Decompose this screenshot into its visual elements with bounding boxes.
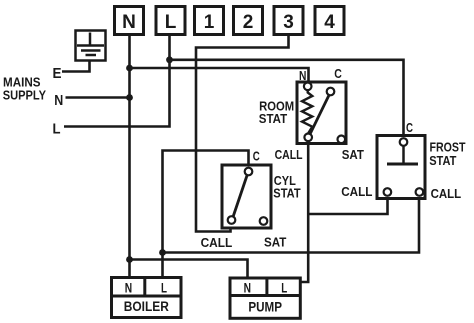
room stat terminal N xyxy=(304,83,312,91)
frost stat contact bar xyxy=(387,163,418,166)
cyl stat terminal CALL xyxy=(228,216,236,224)
wire pump N from N stem junction xyxy=(130,260,248,279)
svg-text:L: L xyxy=(165,12,177,33)
svg-text:C: C xyxy=(253,149,260,163)
svg-text:N: N xyxy=(54,92,63,109)
cyl stat terminal SAT xyxy=(260,217,268,225)
svg-text:N: N xyxy=(122,12,136,33)
svg-text:L: L xyxy=(53,122,61,138)
wire L stem from terminal L down then left to mains L xyxy=(64,35,170,127)
svg-text:CALL: CALL xyxy=(275,147,303,162)
room stat U1 box xyxy=(297,82,346,144)
svg-text:N: N xyxy=(125,280,132,295)
wire neutral line from N stem junction to room stat N xyxy=(130,68,309,86)
room stat resistor accelerator xyxy=(302,90,312,134)
wire boiler L junction to frost stat CALL right xyxy=(163,192,420,253)
svg-text:SUPPLY: SUPPLY xyxy=(3,88,47,103)
pump box xyxy=(230,278,300,318)
frost stat contact stem xyxy=(402,145,405,164)
svg-text:STAT: STAT xyxy=(429,153,456,168)
junction dot N line at room stat feed xyxy=(126,65,133,72)
svg-text:1: 1 xyxy=(204,12,215,33)
room stat terminal SAT xyxy=(338,136,346,144)
room stat switch lever xyxy=(310,95,329,135)
cyl stat terminal C xyxy=(245,168,253,176)
svg-text:C: C xyxy=(406,121,413,135)
junction dot L live line xyxy=(166,56,173,63)
svg-text:SAT: SAT xyxy=(342,147,364,162)
svg-text:2: 2 xyxy=(243,12,254,33)
boiler box xyxy=(112,278,182,318)
junction dot boiler L xyxy=(159,249,166,256)
svg-text:SAT: SAT xyxy=(264,235,286,250)
svg-text:E: E xyxy=(53,65,62,82)
cyl stat switch lever xyxy=(233,176,247,218)
earth block E xyxy=(76,31,106,61)
terminal box 2 xyxy=(234,7,263,35)
junction dot mains N xyxy=(126,94,133,101)
svg-text:STAT: STAT xyxy=(273,186,300,201)
wire frost stat CALL left to room stat switch xyxy=(309,192,388,214)
wire terminal 3 to cyl stat CALL xyxy=(196,35,289,232)
terminal box 4 xyxy=(315,7,344,35)
frost stat terminal C xyxy=(400,138,408,146)
terminal box 3 xyxy=(274,7,303,35)
wire mains N supply xyxy=(66,96,130,99)
svg-text:CALL: CALL xyxy=(431,186,462,201)
wire room stat CALL down to pump L xyxy=(300,137,308,282)
frost stat box xyxy=(377,136,425,199)
svg-text:L: L xyxy=(161,280,167,295)
cyl stat box xyxy=(222,165,271,228)
terminal box N xyxy=(115,7,144,35)
junction dot pump N xyxy=(126,256,133,263)
frost stat terminal CALL left xyxy=(384,188,392,196)
svg-text:N: N xyxy=(244,280,251,295)
svg-text:STAT: STAT xyxy=(259,111,287,126)
wire N stem from terminal N down to boiler N xyxy=(128,35,131,278)
svg-text:L: L xyxy=(281,280,287,295)
room stat terminal C xyxy=(327,88,335,96)
wire boiler L up to cyl stat C xyxy=(163,151,249,278)
svg-text:CALL: CALL xyxy=(201,235,233,250)
wire mains E to earth block xyxy=(62,61,90,72)
svg-text:3: 3 xyxy=(283,12,294,33)
wire live line from L junction to frost stat C xyxy=(170,60,404,141)
svg-text:PUMP: PUMP xyxy=(248,299,282,315)
frost stat terminal CALL right xyxy=(416,188,424,196)
terminal box L xyxy=(156,7,185,35)
svg-text:N: N xyxy=(299,69,306,83)
terminal box 1 xyxy=(195,7,224,35)
svg-text:4: 4 xyxy=(324,12,335,33)
room stat terminal CALL xyxy=(304,134,312,142)
svg-text:BOILER: BOILER xyxy=(124,299,169,314)
svg-text:C: C xyxy=(334,67,342,81)
svg-text:CALL: CALL xyxy=(341,184,372,199)
